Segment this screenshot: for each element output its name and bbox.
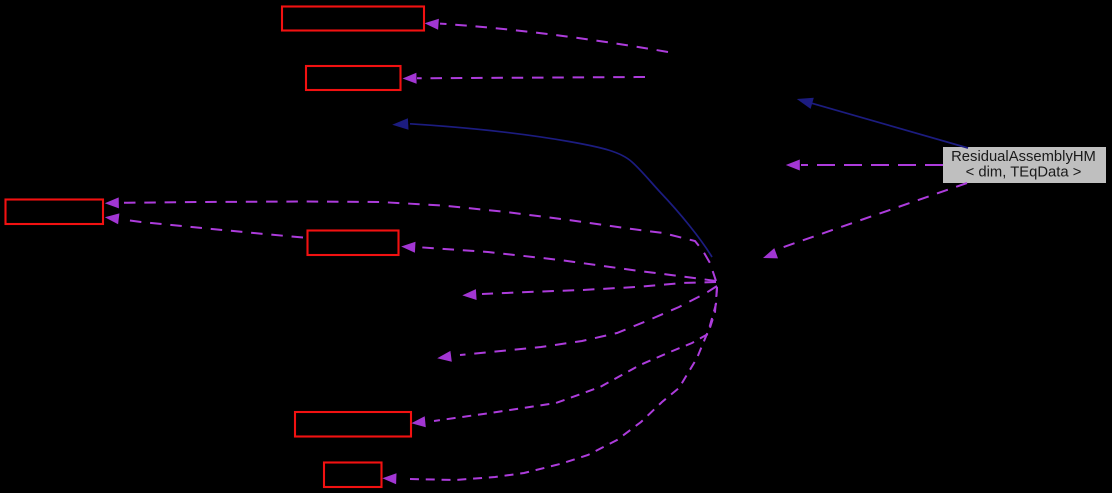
- svg-text:ResidualAssemblyHM: ResidualAssemblyHM: [951, 149, 1096, 165]
- svg-text:< dim, TEqData >: < dim, TEqData >: [966, 164, 1082, 180]
